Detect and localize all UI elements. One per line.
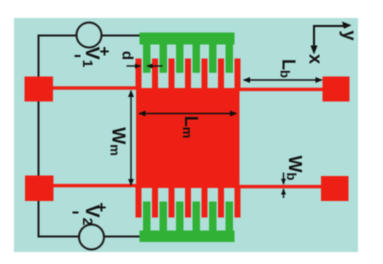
wire V1 to V2 left loop <box>39 36 80 237</box>
dimension d arrows <box>127 65 163 67</box>
dimension Wm <box>130 91 132 186</box>
stator bar top <box>140 33 235 45</box>
stator fingers top <box>143 44 233 73</box>
x axis arrowhead <box>311 46 318 55</box>
coordinate axes origin lines <box>314 26 347 50</box>
anchor square right-bottom <box>321 176 349 201</box>
rotor comb fingers top <box>136 59 241 89</box>
y axis arrowhead <box>342 22 352 29</box>
suspension beam bottom-right <box>238 185 322 188</box>
anchor square left-top <box>25 77 54 102</box>
V1 minus terminal mark <box>75 55 81 57</box>
rotor comb fingers bottom <box>136 187 241 218</box>
dimension Lb <box>244 79 323 81</box>
anchor square right-top <box>323 77 350 102</box>
dimension Wb <box>283 173 285 199</box>
svg-text:y: y <box>339 30 359 40</box>
suspension beam top-left <box>53 86 138 89</box>
suspension beam top-right <box>238 88 323 91</box>
anchor square left-bottom <box>25 176 54 202</box>
svg-text:+: + <box>100 42 110 61</box>
substrate panel <box>14 18 358 252</box>
voltage source V2 <box>79 225 104 250</box>
proof mass <box>136 88 240 188</box>
suspension beam bottom-left <box>54 184 139 187</box>
svg-text:x: x <box>305 54 325 64</box>
voltage source V1 <box>77 23 102 48</box>
svg-text:+: + <box>97 198 107 217</box>
stator bar bottom <box>140 231 235 243</box>
dimension Lm <box>139 113 237 115</box>
stator fingers bottom <box>143 202 233 231</box>
svg-text:d: d <box>119 51 136 60</box>
wire V1 to top stator <box>102 35 141 37</box>
V2 minus terminal mark <box>73 212 79 214</box>
wire V2 to bottom stator <box>104 236 141 238</box>
